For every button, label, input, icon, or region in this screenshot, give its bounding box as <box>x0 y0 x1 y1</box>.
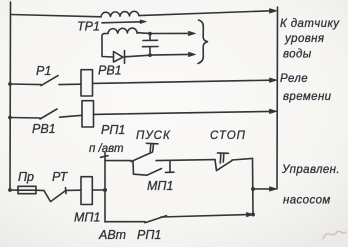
wire coil МП1 to selector node <box>92 189 105 191</box>
transformer TP1 secondary winding <box>104 28 137 34</box>
label РП1 (auto contact) <box>137 228 161 242</box>
label СТОП <box>210 130 246 142</box>
right bus wire <box>276 7 279 189</box>
wire coil PB1 to right bus <box>93 80 272 83</box>
svg-text:воды: воды <box>283 49 312 61</box>
label п/авт <box>89 143 124 155</box>
junction dot tap to bus <box>251 187 255 191</box>
svg-text:РВ1: РВ1 <box>32 122 56 136</box>
wire diode cathode to lower node <box>125 55 151 57</box>
rail 2: wire from left bus to contact P1 <box>10 83 41 86</box>
label времени <box>283 91 332 103</box>
wire СТОП to right corner <box>232 158 253 160</box>
parallel contact МП1 bottom wire <box>134 174 148 175</box>
label ТР1 <box>77 20 100 34</box>
transformer TP1 core arrow <box>102 20 146 24</box>
transformer TP1 primary winding <box>101 11 139 17</box>
wire tap to right bus with arrowhead <box>253 187 277 192</box>
wire selector to ПУСК button <box>105 160 131 162</box>
pushbutton СТОП stem <box>218 153 229 163</box>
arrowhead rail3 into right bus <box>270 109 278 114</box>
svg-text:РТ: РТ <box>52 170 69 184</box>
junction dot selector node <box>103 188 107 192</box>
label уровня <box>284 33 324 45</box>
svg-text:РП1: РП1 <box>101 123 125 137</box>
svg-text:п /авт: п /авт <box>89 143 124 155</box>
svg-text:РП1: РП1 <box>137 228 161 242</box>
contact РП1 blade (auto branch) <box>145 216 167 223</box>
svg-text:ПУСК: ПУСК <box>136 130 171 142</box>
junction node lower (cap bottom) <box>148 53 152 57</box>
svg-text:Реле: Реле <box>280 73 308 85</box>
wire top rail left segment <box>11 15 101 17</box>
svg-text:уровня: уровня <box>284 33 324 45</box>
svg-text:АВт: АВт <box>98 228 126 242</box>
svg-text:МП1: МП1 <box>147 179 173 193</box>
label Управлен. <box>281 164 340 176</box>
wire to sensor upper with arrowhead <box>150 31 196 36</box>
svg-text:Пр: Пр <box>18 170 34 184</box>
arrowhead rail2 into right bus <box>270 78 278 83</box>
junction dot left bus rail2 <box>8 82 12 86</box>
fuse Пр body <box>18 186 36 193</box>
pushbutton ПУСК blade <box>131 152 153 162</box>
wire contact РТ to coil МП1 <box>66 189 81 191</box>
contactor coil МП1 <box>81 177 92 205</box>
junction dot left bus rail4 <box>8 188 12 192</box>
label МП1 (contact) <box>147 179 173 193</box>
label насосом <box>283 195 331 207</box>
wire to sensor lower with arrowhead <box>150 52 196 57</box>
brace to water level sensor <box>198 20 208 64</box>
pushbutton СТОП blade <box>215 160 232 171</box>
svg-text:СТОП: СТОП <box>210 130 246 142</box>
svg-text:Управлен.: Управлен. <box>281 164 340 176</box>
wire bottom branch from selector <box>106 221 145 223</box>
parallel contact МП1 right riser <box>166 161 175 173</box>
label Р1 <box>36 64 51 78</box>
label Пр <box>18 170 34 184</box>
label воды <box>283 49 312 61</box>
wire right corner vertical <box>252 158 255 214</box>
capacitor C1 <box>143 34 159 56</box>
junction dot bottom corner <box>251 213 255 217</box>
label РТ <box>52 170 69 184</box>
svg-text:времени: времени <box>283 91 332 103</box>
left bus wire <box>9 2 12 190</box>
svg-text:РВ1: РВ1 <box>98 64 122 78</box>
wire coil RP1 to right bus <box>94 111 272 114</box>
label ПУСК <box>136 130 171 142</box>
diode VD1 <box>114 51 125 64</box>
pushbutton ПУСК stem <box>147 143 159 151</box>
svg-text:МП1: МП1 <box>74 211 100 225</box>
wire fuse to contact РТ <box>36 189 44 191</box>
svg-text:К датчику: К датчику <box>280 18 340 30</box>
contact PB1 blade <box>40 109 57 119</box>
selector vertical wire п/авт <box>104 153 106 223</box>
wire contact PB1 to coil RP1 <box>60 115 83 117</box>
svg-text:Р1: Р1 <box>36 64 51 78</box>
selector tick <box>101 156 109 158</box>
wire ПУСК to СТОП <box>156 160 215 161</box>
label МП1 (coil) <box>74 211 100 225</box>
parallel contact МП1 blade <box>147 169 162 176</box>
relay coil РП1 <box>82 101 94 127</box>
label АВт <box>98 228 126 242</box>
junction dot left bus rail3 <box>8 116 12 120</box>
wire top rail right segment <box>139 11 271 16</box>
label РВ1 (contact) <box>32 122 56 136</box>
parallel contact МП1 left drop wire <box>132 161 135 174</box>
arrowhead top rail into right bus <box>270 9 278 14</box>
label РП1 (coil) <box>101 123 125 137</box>
svg-text:ТР1: ТР1 <box>77 20 100 34</box>
wire secondary left side down to diode <box>102 34 113 57</box>
rail 3: wire from left bus to contact PB1 <box>10 117 40 120</box>
label РВ1 (coil) <box>98 64 122 78</box>
rail 4: wire left bus to fuse <box>10 189 18 191</box>
label К датчику <box>280 18 340 30</box>
wire secondary right to upper node <box>137 32 150 35</box>
faint pencil smudge bottom right <box>323 231 346 239</box>
junction node upper (cap top) <box>148 32 152 36</box>
label Реле <box>280 73 308 85</box>
svg-text:насосом: насосом <box>283 195 331 207</box>
relay coil PB1 <box>81 70 93 96</box>
wire contact P1 to coil PB1 <box>59 83 81 85</box>
contact P1 blade <box>41 76 58 86</box>
wire РП1 contact to corner with arrowhead <box>161 212 253 217</box>
contact РТ blade <box>44 188 66 202</box>
